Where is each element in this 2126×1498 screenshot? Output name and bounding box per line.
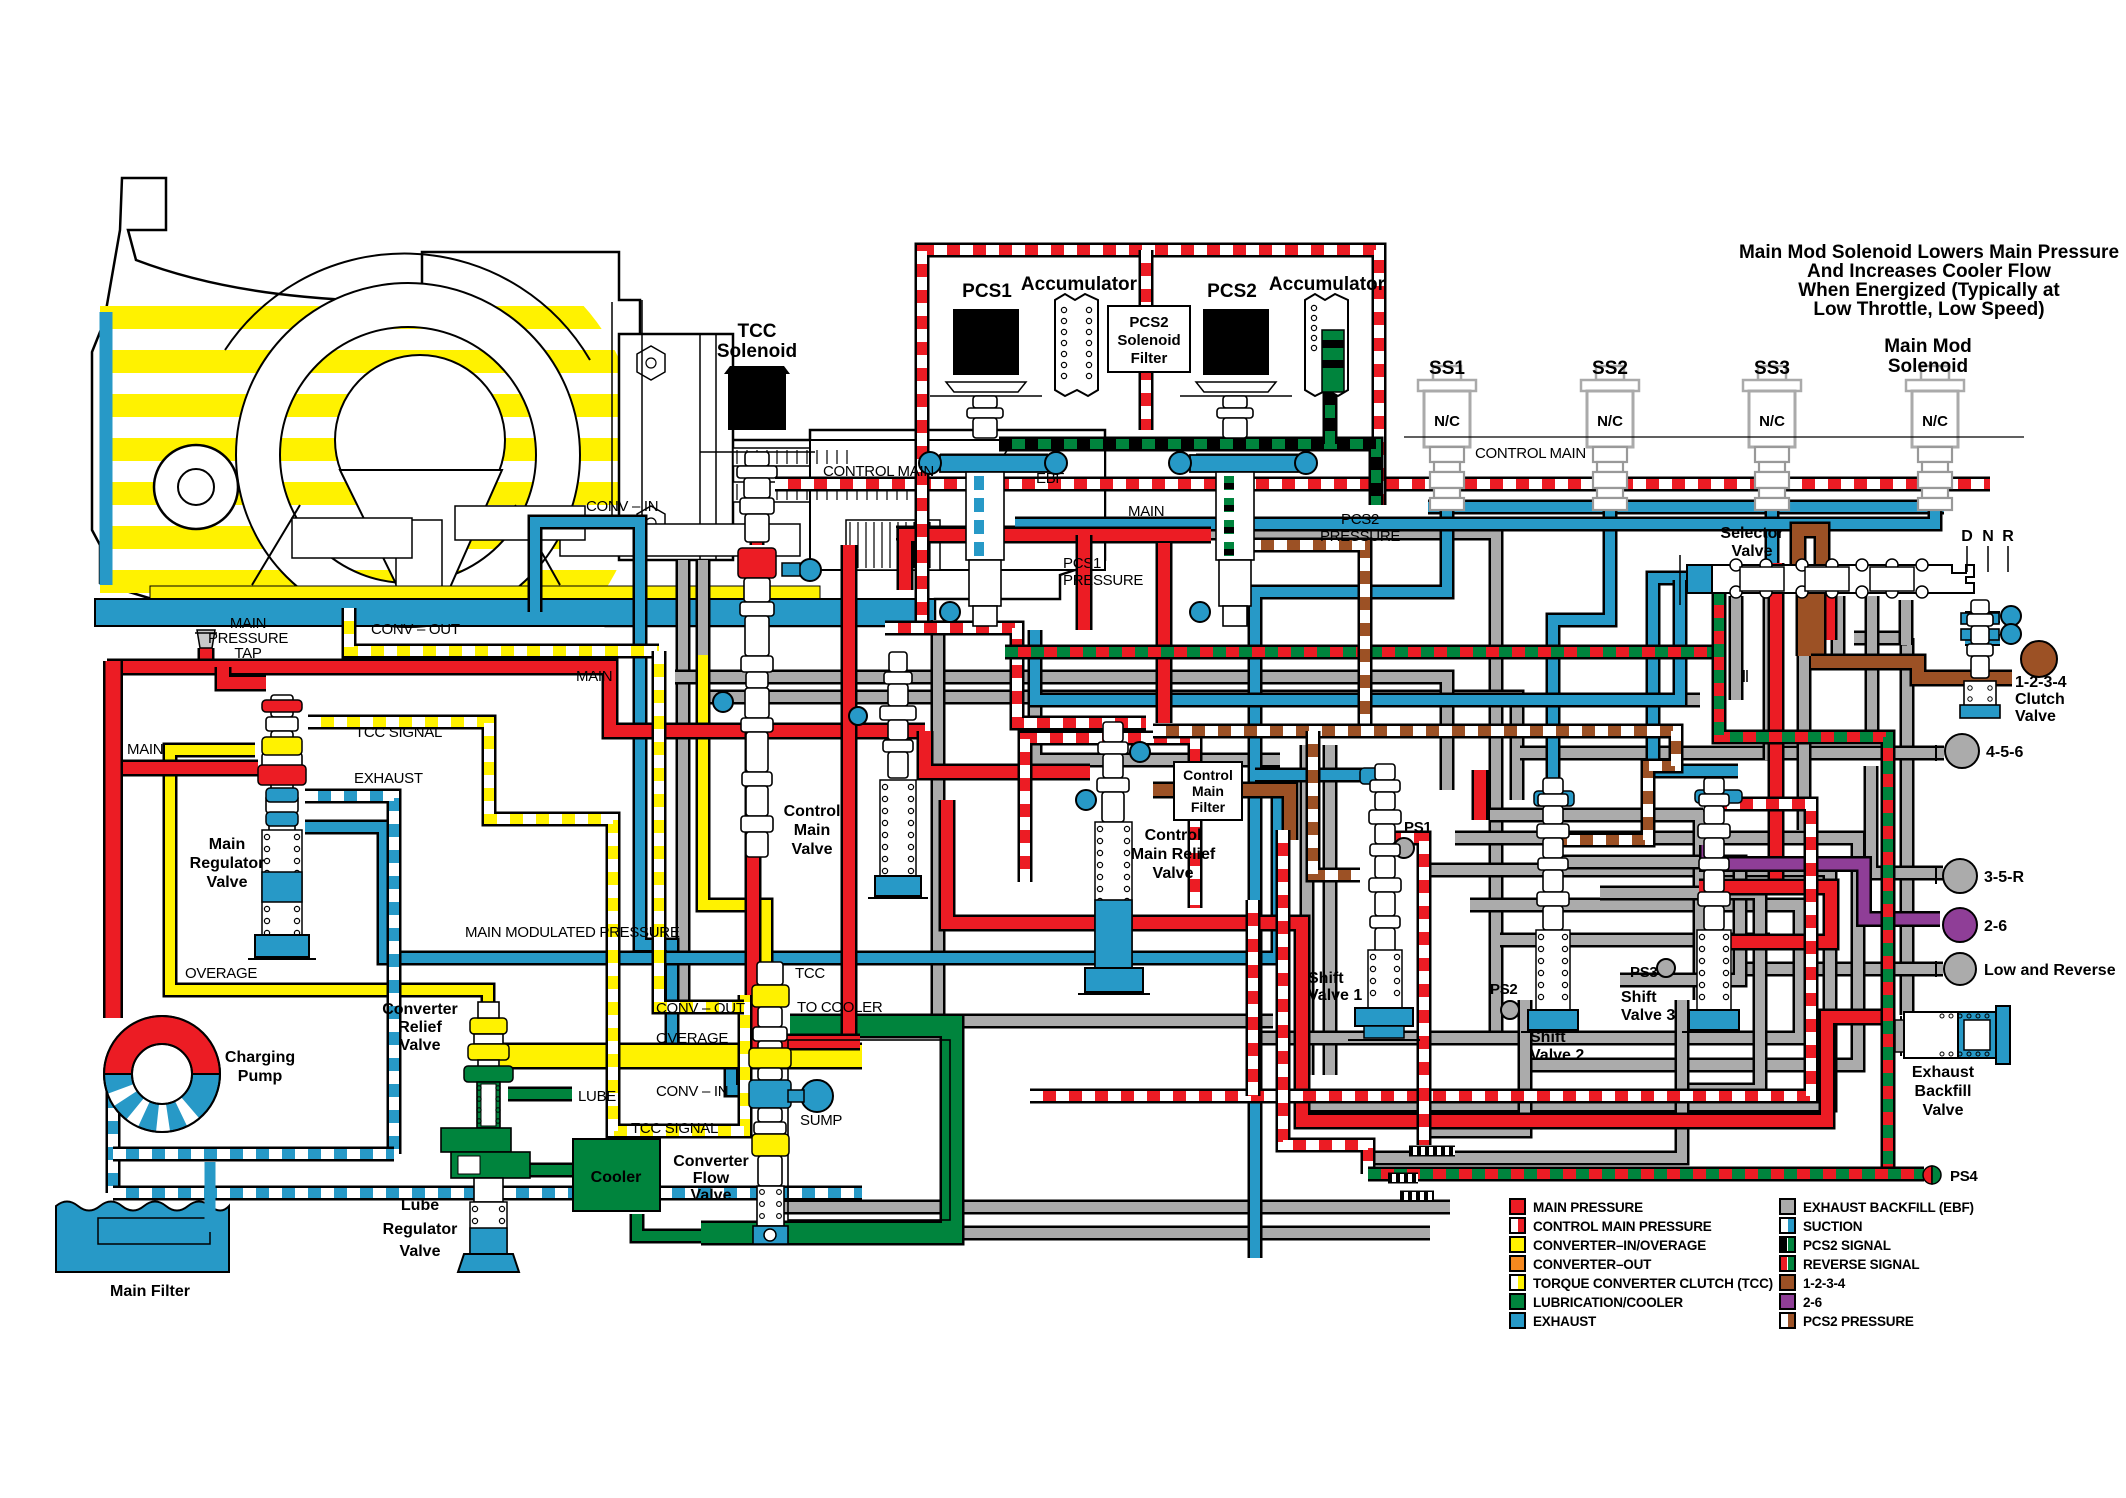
svg-text:Control: Control [1183,767,1233,783]
svg-text:Solenoid: Solenoid [1117,332,1180,349]
svg-text:PCS2: PCS2 [1341,511,1379,528]
svg-text:Valve: Valve [207,874,248,891]
svg-text:CONVERTER–IN/OVERAGE: CONVERTER–IN/OVERAGE [1533,1238,1706,1253]
svg-text:LUBE: LUBE [578,1088,616,1105]
svg-text:Valve: Valve [792,841,833,858]
svg-text:TCC SIGNAL: TCC SIGNAL [355,724,442,741]
svg-text:CONV – IN: CONV – IN [656,1083,728,1100]
svg-text:Main Filter: Main Filter [110,1283,190,1300]
svg-text:N/C: N/C [1759,413,1785,430]
svg-text:Filter: Filter [1191,799,1226,815]
svg-text:PCS1: PCS1 [962,281,1012,302]
svg-text:Valve: Valve [1732,543,1773,560]
svg-text:SS3: SS3 [1754,358,1790,379]
svg-text:MAIN PRESSURE: MAIN PRESSURE [1533,1200,1643,1215]
svg-text:Valve 2: Valve 2 [1530,1047,1584,1064]
svg-text:2-6: 2-6 [1803,1295,1823,1310]
svg-text:D: D [1961,528,1973,545]
svg-text:EXHAUST: EXHAUST [1533,1314,1597,1329]
svg-text:Control: Control [784,803,841,820]
svg-text:Valve 3: Valve 3 [1621,1007,1675,1024]
svg-text:Main Mod: Main Mod [1884,336,1972,357]
svg-text:PCS2: PCS2 [1207,281,1257,302]
svg-text:Main Relief: Main Relief [1131,846,1216,863]
svg-text:PCS2 PRESSURE: PCS2 PRESSURE [1803,1314,1914,1329]
svg-text:Regulator: Regulator [383,1221,458,1238]
svg-text:PS3: PS3 [1630,964,1657,981]
svg-text:TCC: TCC [737,321,776,342]
svg-text:Valve: Valve [1923,1102,1964,1119]
svg-text:PCS1: PCS1 [1063,555,1101,572]
svg-text:CONV – OUT: CONV – OUT [371,621,460,638]
svg-text:EBF: EBF [1036,470,1064,487]
svg-text:Cooler: Cooler [591,1169,642,1186]
svg-text:Selector: Selector [1720,525,1783,542]
svg-text:N: N [1982,528,1994,545]
svg-text:Low Throttle, Low Speed): Low Throttle, Low Speed) [1813,299,2044,320]
svg-text:EXHAUST BACKFILL (EBF): EXHAUST BACKFILL (EBF) [1803,1200,1974,1215]
svg-text:Shift: Shift [1621,989,1657,1006]
svg-text:CONVERTER–OUT: CONVERTER–OUT [1533,1257,1652,1272]
svg-text:Valve: Valve [1153,865,1194,882]
svg-text:Lube: Lube [401,1197,439,1214]
svg-text:TO COOLER: TO COOLER [797,999,883,1016]
svg-text:R: R [2002,528,2014,545]
svg-text:Flow: Flow [693,1170,730,1187]
svg-text:CONTROL MAIN PRESSURE: CONTROL MAIN PRESSURE [1533,1219,1712,1234]
svg-text:Valve: Valve [400,1243,441,1260]
svg-text:Low and Reverse: Low and Reverse [1984,962,2116,979]
svg-text:Converter: Converter [382,1001,458,1018]
svg-text:Regulator: Regulator [190,855,265,872]
svg-text:PS2: PS2 [1490,981,1517,998]
svg-text:Clutch: Clutch [2015,691,2065,708]
svg-text:Accumulator: Accumulator [1021,274,1138,295]
svg-text:MAIN: MAIN [1128,503,1164,520]
svg-text:TAP: TAP [234,645,261,662]
svg-text:SS1: SS1 [1429,358,1465,379]
svg-text:PS1: PS1 [1404,819,1431,836]
svg-text:Main: Main [209,836,245,853]
svg-text:REVERSE SIGNAL: REVERSE SIGNAL [1803,1257,1919,1272]
svg-text:MAIN: MAIN [127,741,163,758]
svg-text:PCS2 SIGNAL: PCS2 SIGNAL [1803,1238,1891,1253]
svg-text:SS2: SS2 [1592,358,1628,379]
svg-text:Valve 1: Valve 1 [1308,987,1362,1004]
svg-text:N/C: N/C [1597,413,1623,430]
svg-text:Solenoid: Solenoid [717,341,797,362]
svg-text:OVERAGE: OVERAGE [185,965,257,982]
svg-text:3-5-R: 3-5-R [1984,869,2024,886]
svg-text:1-2-3-4: 1-2-3-4 [1803,1276,1846,1291]
svg-text:CONV – IN: CONV – IN [586,498,658,515]
svg-text:MAIN MODULATED PRESSURE: MAIN MODULATED PRESSURE [465,924,680,941]
svg-text:Control: Control [1145,827,1202,844]
svg-text:Backfill: Backfill [1915,1083,1972,1100]
svg-text:LUBRICATION/COOLER: LUBRICATION/COOLER [1533,1295,1683,1310]
svg-text:Converter: Converter [673,1153,749,1170]
svg-text:2-6: 2-6 [1984,918,2007,935]
svg-text:SUCTION: SUCTION [1803,1219,1862,1234]
svg-text:OVERAGE: OVERAGE [656,1030,728,1047]
svg-text:Main: Main [1192,783,1224,799]
svg-text:Shift: Shift [1530,1029,1566,1046]
svg-text:PCS2: PCS2 [1129,314,1168,331]
svg-text:N/C: N/C [1434,413,1460,430]
svg-text:Relief: Relief [398,1019,442,1036]
svg-text:PS4: PS4 [1950,1168,1978,1185]
svg-text:CONTROL MAIN: CONTROL MAIN [823,463,934,480]
svg-text:And Increases Cooler Flow: And Increases Cooler Flow [1807,261,2051,282]
svg-text:CONV – OUT: CONV – OUT [656,1000,745,1017]
svg-text:N/C: N/C [1922,413,1948,430]
svg-text:TCC: TCC [795,965,825,982]
svg-text:TORQUE CONVERTER CLUTCH (TCC: TORQUE CONVERTER CLUTCH (TCC) [1533,1276,1773,1291]
svg-text:Shift: Shift [1308,970,1344,987]
svg-text:Valve: Valve [400,1037,441,1054]
svg-text:Filter: Filter [1131,350,1168,367]
svg-text:EXHAUST: EXHAUST [354,770,423,787]
svg-text:PRESSURE: PRESSURE [1063,572,1143,589]
svg-text:MAIN: MAIN [576,668,612,685]
svg-text:Main Mod Solenoid Lowers Main: Main Mod Solenoid Lowers Main Pressure [1739,242,2119,263]
svg-text:Charging: Charging [225,1049,295,1066]
svg-text:SUMP: SUMP [800,1112,842,1129]
svg-text:TCC SIGNAL: TCC SIGNAL [631,1120,718,1137]
svg-text:1-2-3-4: 1-2-3-4 [2015,674,2067,691]
svg-text:CONTROL MAIN: CONTROL MAIN [1475,445,1586,462]
svg-text:Exhaust: Exhaust [1912,1064,1975,1081]
svg-text:Accumulator: Accumulator [1269,274,1386,295]
svg-text:Pump: Pump [238,1068,283,1085]
svg-text:4-5-6: 4-5-6 [1986,744,2023,761]
svg-text:N/C: N/C [744,395,770,412]
svg-text:N/O: N/O [1222,335,1250,352]
svg-text:PRESSURE: PRESSURE [1320,528,1400,545]
svg-text:Valve: Valve [2015,708,2056,725]
svg-text:Valve: Valve [691,1187,732,1204]
svg-text:When Energized (Typically at: When Energized (Typically at [1798,280,2060,301]
svg-text:Main: Main [794,822,830,839]
svg-text:N/C: N/C [972,335,1000,352]
svg-text:Solenoid: Solenoid [1888,356,1968,377]
